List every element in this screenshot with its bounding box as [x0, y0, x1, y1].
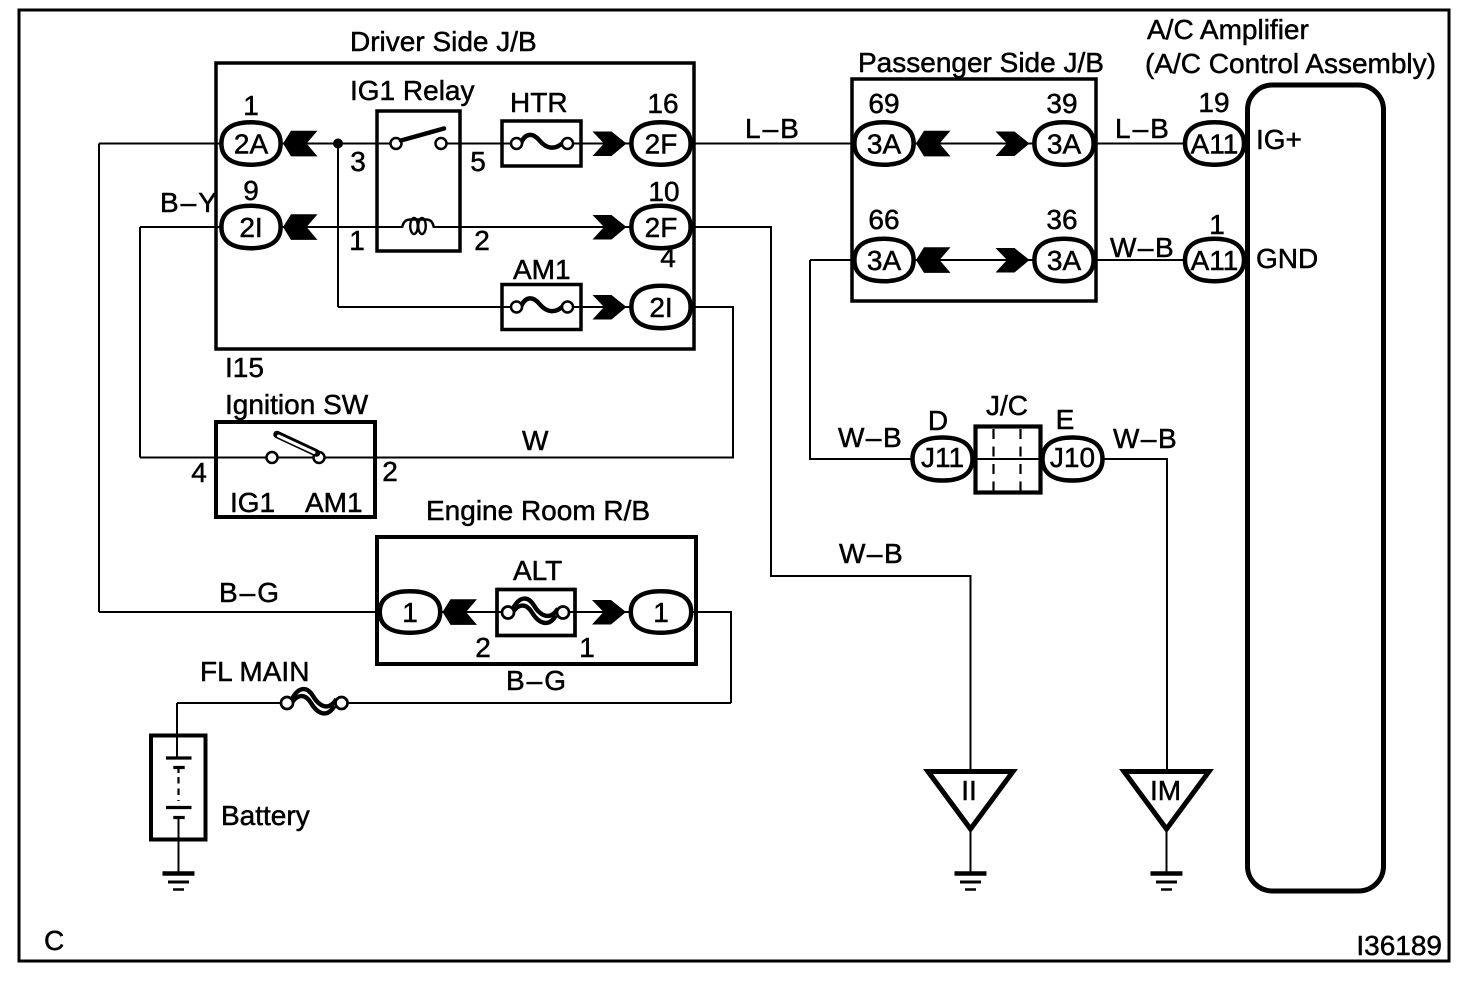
svg-text:IM: IM — [1150, 775, 1181, 806]
svg-text:B–G: B–G — [506, 665, 568, 696]
arrow male at 2I4 — [593, 295, 627, 320]
svg-text:(A/C Control Assembly): (A/C Control Assembly) — [1145, 48, 1436, 79]
Ignition SW box — [216, 422, 375, 517]
svg-text:B–Y: B–Y — [160, 187, 219, 218]
Engine Room R/B box — [377, 537, 696, 664]
svg-text:3A: 3A — [1047, 129, 1082, 160]
connector 1 left R/B — [380, 591, 440, 633]
battery symbol plates — [166, 757, 192, 818]
svg-text:3: 3 — [350, 146, 366, 177]
ignition switch contacts — [267, 452, 325, 463]
wire oval2 down — [692, 612, 731, 703]
relay coil — [402, 218, 434, 234]
connector A11 pin19 — [1185, 122, 1244, 164]
connector 3A pin36 — [1034, 239, 1093, 281]
svg-text:Engine Room R/B: Engine Room R/B — [426, 495, 650, 526]
svg-text:D: D — [928, 405, 948, 436]
connector 3A pin66 — [854, 239, 913, 281]
svg-text:5: 5 — [470, 146, 486, 177]
svg-text:1: 1 — [349, 225, 365, 256]
ground battery — [163, 874, 195, 890]
svg-text:W–B: W–B — [1113, 423, 1178, 454]
wire 2A feed — [99, 143, 222, 145]
relay switch contacts — [391, 138, 447, 149]
wire oval1 to ALT — [442, 611, 508, 613]
connector 3A pin69 — [854, 122, 913, 164]
connector 2F pin16 — [631, 122, 690, 164]
wire battery stem bottom — [178, 818, 180, 873]
wire W-B to A11-1 — [1093, 259, 1186, 261]
svg-text:FL MAIN: FL MAIN — [200, 656, 309, 687]
arrow male at R/B 1 right — [592, 600, 626, 625]
ground triangle II — [928, 772, 1013, 830]
svg-text:AM1: AM1 — [513, 254, 571, 285]
ground II — [955, 874, 987, 890]
wire coil to 2F10 — [434, 226, 632, 228]
wire ALT to oval2 — [564, 611, 630, 613]
wire 2I to relay coil — [281, 226, 402, 228]
svg-text:W: W — [522, 425, 549, 456]
wire ignition pin4 through box — [140, 457, 377, 459]
wire 2A to relay — [281, 143, 391, 145]
svg-text:2: 2 — [382, 456, 398, 487]
svg-text:IG+: IG+ — [1256, 124, 1302, 155]
svg-text:B–G: B–G — [219, 577, 281, 608]
svg-text:A11: A11 — [1191, 245, 1239, 276]
fusible link ALT symbol — [502, 599, 569, 623]
fusible link FL MAIN symbol — [281, 689, 348, 713]
svg-text:2F: 2F — [645, 129, 678, 160]
svg-text:9: 9 — [243, 175, 259, 206]
wire FL MAIN to corner — [346, 702, 731, 704]
relay switch blade — [401, 129, 444, 141]
svg-text:2: 2 — [475, 632, 491, 663]
svg-text:Driver Side J/B: Driver Side J/B — [350, 26, 537, 57]
svg-text:2: 2 — [474, 225, 490, 256]
arrow female at 3A66 — [916, 247, 951, 273]
arrow female at 2I9 — [283, 214, 318, 240]
svg-text:AM1: AM1 — [305, 487, 363, 518]
connector 2F pin10 — [631, 206, 690, 248]
svg-text:4: 4 — [191, 457, 207, 488]
svg-text:2F: 2F — [645, 212, 678, 243]
A/C amplifier box — [1248, 85, 1384, 891]
Passenger Side J/B box — [852, 79, 1096, 301]
svg-text:J11: J11 — [921, 442, 964, 473]
svg-text:II: II — [961, 775, 977, 806]
arrow female at R/B 1 left — [443, 599, 478, 625]
wire B-G lower horizontal — [99, 611, 380, 613]
svg-text:1: 1 — [402, 597, 418, 628]
connector A11 pin1 — [1185, 239, 1244, 281]
svg-text:J/C: J/C — [986, 390, 1028, 421]
arrow male at 2F10 — [593, 215, 627, 240]
svg-text:W–B: W–B — [839, 538, 904, 569]
svg-text:1: 1 — [653, 597, 669, 628]
fuse ALT box — [497, 590, 575, 636]
svg-text:GND: GND — [1256, 243, 1318, 274]
connector 1 right R/B — [631, 591, 691, 633]
svg-text:3A: 3A — [867, 129, 902, 160]
svg-text:10: 10 — [648, 176, 679, 207]
svg-text:66: 66 — [868, 204, 899, 235]
connector 2I pin4 — [631, 286, 690, 328]
fuse HTR symbol — [511, 135, 573, 149]
wire J10 to ground IM — [1100, 459, 1167, 772]
junction block J/C — [976, 427, 1041, 493]
connector J10 — [1043, 438, 1103, 481]
svg-text:Battery: Battery — [221, 800, 310, 831]
wire relay to HTR — [446, 143, 513, 145]
svg-text:36: 36 — [1046, 204, 1077, 235]
arrow male at 3A39 — [996, 132, 1030, 157]
svg-text:W–B: W–B — [838, 422, 903, 453]
wire B-G vertical left — [98, 144, 100, 613]
svg-text:2I: 2I — [239, 212, 262, 243]
svg-text:3A: 3A — [1047, 245, 1082, 276]
wire L-B row1 — [690, 143, 856, 145]
svg-text:I15: I15 — [225, 352, 264, 383]
Driver Side J/B box I15 — [216, 63, 694, 349]
wire AM1 branch vertical — [337, 144, 339, 308]
ground IM — [1151, 874, 1183, 890]
svg-text:39: 39 — [1046, 88, 1077, 119]
node junction dot — [333, 139, 343, 149]
svg-text:19: 19 — [1198, 87, 1229, 118]
connector 3A pin39 — [1034, 122, 1093, 164]
connector 2A — [221, 122, 280, 164]
svg-text:W–B: W–B — [1110, 232, 1175, 263]
wire W-B from 2F10 to ground II — [690, 227, 971, 772]
fuse AM1 box — [502, 285, 581, 330]
svg-text:IG1: IG1 — [230, 487, 275, 518]
svg-text:I36189: I36189 — [1356, 930, 1442, 961]
svg-text:J10: J10 — [1050, 442, 1095, 473]
wire L-B to A11-19 — [1093, 143, 1186, 145]
fuse AM1 symbol — [511, 298, 573, 312]
wire battery stem top — [176, 703, 178, 757]
svg-text:Ignition SW: Ignition SW — [225, 389, 369, 420]
wire passenger row2 internal — [914, 259, 1034, 261]
connector 2I pin9 — [221, 206, 280, 248]
svg-text:C: C — [44, 925, 64, 956]
wire battery to FL MAIN — [177, 702, 286, 704]
svg-text:3A: 3A — [867, 245, 902, 276]
arrow male at 2F16 — [593, 132, 627, 157]
relay IG1 box — [377, 111, 460, 251]
svg-text:Passenger Side J/B: Passenger Side J/B — [858, 47, 1104, 78]
wire AM1 branch horizontal — [338, 306, 513, 308]
arrow male at 3A36 — [996, 248, 1030, 273]
wire 2I-9 feed — [140, 226, 222, 228]
svg-text:L–B: L–B — [745, 113, 801, 144]
svg-text:A/C Amplifier: A/C Amplifier — [1147, 14, 1309, 45]
wire 3A66 feed — [810, 259, 856, 261]
connector J11 — [913, 438, 973, 481]
svg-text:HTR: HTR — [510, 87, 568, 118]
ignition switch blade — [277, 435, 317, 454]
arrow female at 2A — [283, 131, 318, 157]
svg-text:A11: A11 — [1191, 129, 1239, 160]
ground triangle IM — [1124, 772, 1209, 830]
svg-text:L–B: L–B — [1115, 113, 1171, 144]
wire II stem — [970, 829, 972, 872]
svg-text:2I: 2I — [649, 292, 672, 323]
svg-text:2A: 2A — [234, 129, 269, 160]
wire HTR to 2F16 — [573, 143, 632, 145]
wire W-B down to J11 — [810, 260, 914, 459]
svg-text:69: 69 — [868, 88, 899, 119]
svg-text:ALT: ALT — [513, 555, 562, 586]
svg-text:4: 4 — [660, 242, 676, 273]
wire passenger row1 internal — [914, 143, 1034, 145]
fuse HTR box — [502, 121, 581, 166]
svg-text:1: 1 — [243, 90, 259, 121]
svg-text:1: 1 — [579, 632, 595, 663]
wire AM1 to 2I4 — [573, 306, 632, 308]
svg-text:1: 1 — [1209, 209, 1225, 240]
wire W from 2I4 to ignition — [377, 307, 733, 458]
wire B-Y vertical — [139, 227, 141, 458]
svg-text:E: E — [1056, 404, 1075, 435]
arrow female at 3A69 — [916, 131, 951, 157]
svg-text:IG1 Relay: IG1 Relay — [350, 75, 475, 106]
svg-text:16: 16 — [647, 88, 678, 119]
battery box — [151, 736, 206, 840]
wire IM stem — [1166, 829, 1168, 872]
